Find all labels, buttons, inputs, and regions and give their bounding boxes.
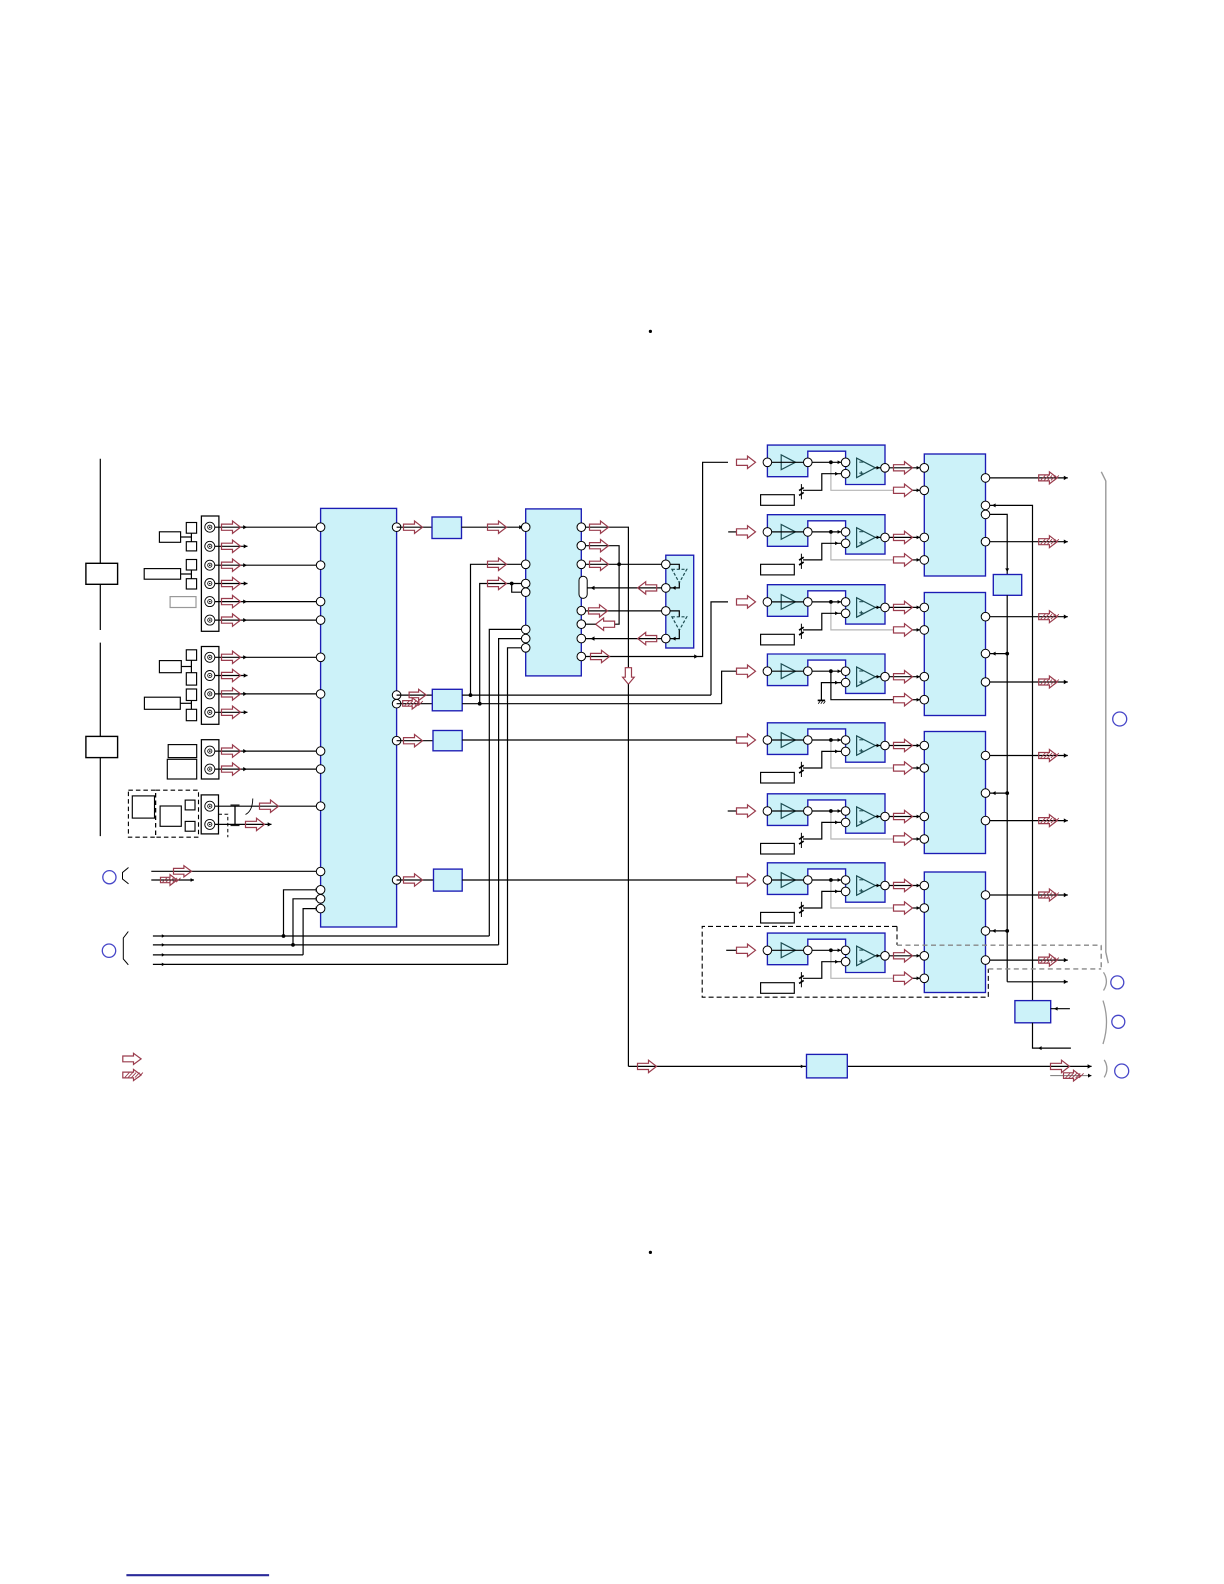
U2 pin L3 xyxy=(521,579,530,588)
U3 pin 2 xyxy=(662,584,671,593)
pin row7 out xyxy=(881,881,890,890)
wire row3 to power amp xyxy=(889,606,924,608)
input arrow row4 xyxy=(737,665,756,677)
bracket pre-out xyxy=(1103,1001,1107,1044)
label box row3 xyxy=(761,634,795,645)
label box CN3-A xyxy=(168,745,197,758)
wire PA1 aux1 to box B6 xyxy=(990,505,1033,1000)
connector block CN2 xyxy=(201,647,219,725)
wire jack CN4-2 stub xyxy=(215,823,272,825)
box B5 xyxy=(993,575,1021,596)
pin row8 in xyxy=(763,946,772,955)
box B2 (REC selector) xyxy=(432,689,462,711)
U2 pin R6 xyxy=(577,634,586,643)
feedback wire row3 (gray) xyxy=(831,602,894,630)
signal arrow to U2 L2 xyxy=(488,558,507,570)
pin row1 plus xyxy=(841,469,850,478)
wire B2a to U2 pin xyxy=(471,564,522,695)
pin row5 out xyxy=(881,741,890,750)
selector contact square CN1-3 xyxy=(186,560,196,571)
selector contact square CN1-1 xyxy=(186,523,196,534)
pin row6 in xyxy=(763,807,772,816)
PA3 pin fb1 xyxy=(920,764,929,773)
wire op-amp out row5 xyxy=(875,745,884,747)
wire row5 plus input xyxy=(803,751,841,768)
buffer amp row8 xyxy=(781,943,795,958)
wire row7 to power amp xyxy=(889,885,924,887)
input jack CN1-6 xyxy=(205,615,215,625)
feedback wire row2 (gray) xyxy=(831,532,894,560)
pin row3 mid xyxy=(804,598,813,607)
PA output pin 1 xyxy=(981,474,990,483)
wire bus4 to U2 pin xyxy=(508,648,522,965)
signal arrow CN1-1 xyxy=(222,521,241,533)
wire op-amp out row4 xyxy=(875,676,884,678)
wire row8 main xyxy=(772,949,846,951)
wire feedback row2 to power amp xyxy=(913,559,925,561)
wire B6 bottom out xyxy=(1033,1023,1071,1048)
PA3 pin aux xyxy=(981,789,990,798)
dashed corridor right (gray) xyxy=(1100,945,1102,969)
cable arc CN4 xyxy=(246,799,253,815)
feedback wire row6 (gray) xyxy=(831,811,894,839)
wire headphone vertical lower xyxy=(627,684,629,1066)
PA output pin 2 xyxy=(981,537,990,546)
pin row6 plus xyxy=(841,818,850,827)
speaker output wire 7 xyxy=(990,894,1068,896)
speaker output arrow 8 (hatched) xyxy=(1039,954,1058,966)
PA output pin 3 xyxy=(981,612,990,621)
input jack CN2-4 xyxy=(205,707,215,717)
wire row4 plus input xyxy=(821,683,841,701)
pin row3 in xyxy=(763,598,772,607)
wire B5 down xyxy=(1006,595,1008,982)
wire U1 to box B2 (b) xyxy=(397,703,433,705)
feedback arrow row1 xyxy=(894,484,913,496)
wire bus1 to U2 pin xyxy=(489,629,521,936)
DAC op-amp triangle 2 xyxy=(672,617,687,630)
wire bus B2a up to row3 xyxy=(711,602,728,695)
pin row8 minus xyxy=(841,946,850,955)
terminal circle surround-back xyxy=(1111,976,1124,989)
input jack CN1-1 xyxy=(205,522,215,532)
wire row1 plus input xyxy=(803,474,841,491)
wire B4 to row7 xyxy=(462,879,736,881)
input jack CN1-5 xyxy=(205,597,215,607)
feedback arrow row3 xyxy=(894,624,913,636)
input arrow row1 xyxy=(737,456,756,468)
stub wire jack CN2-2 xyxy=(215,675,248,677)
pin row7 plus xyxy=(841,887,850,896)
input jack CN1-2 xyxy=(205,541,215,551)
label box CN2-A xyxy=(159,661,181,673)
bus wire 3 xyxy=(153,954,303,956)
signal arrow B1-U2 xyxy=(488,521,507,533)
dashed corridor top (gray) xyxy=(897,944,1101,946)
wire op-amp out row1 xyxy=(875,467,884,469)
U2 pin R4 xyxy=(577,606,586,615)
selector contact square CN1-4 xyxy=(186,579,196,589)
input jack CN3-1 xyxy=(205,746,215,756)
bias trim symbol row1 xyxy=(800,484,802,499)
selector contact square CN2-3 xyxy=(186,689,196,701)
signal arrow U1-B2a xyxy=(409,689,426,700)
wire row1 main xyxy=(772,461,846,463)
dashed enclosure row8 (optional amp) xyxy=(702,926,988,997)
speaker bracket xyxy=(1101,472,1108,963)
selector contact square CN1-2 xyxy=(186,542,196,551)
pin row4 in xyxy=(763,667,772,676)
preamp block row6 xyxy=(767,794,885,833)
wire jack CN2-1 to U1 xyxy=(215,656,322,658)
signal arrow U2 R3 xyxy=(590,558,609,570)
stub wire jack CN2-4 xyxy=(215,711,248,713)
wire jack CN3-2 to U1 xyxy=(215,768,322,770)
legend arrow signal xyxy=(123,1053,141,1064)
PA4 pin fb1 xyxy=(920,904,929,913)
U2 pin R5 xyxy=(577,620,586,629)
pin row7 minus xyxy=(841,876,850,885)
label box CN1-A xyxy=(159,532,180,543)
preamp block row1 xyxy=(767,445,885,484)
pin row5 plus xyxy=(841,747,850,756)
PA output pin 7 xyxy=(981,891,990,900)
input arrow row5 xyxy=(737,734,756,746)
wire row5 to power amp xyxy=(889,745,924,747)
wire feedback row6 to power amp xyxy=(913,838,925,840)
feedback arrow row5 xyxy=(894,762,913,774)
U2 pin R7 xyxy=(577,652,586,661)
dashed enclosure DOCK left xyxy=(128,790,155,837)
buffer amp row5 xyxy=(781,733,795,748)
pin row7 mid xyxy=(804,876,813,885)
bus wire 2 xyxy=(153,944,499,946)
wire row6 to power amp xyxy=(889,816,924,818)
pin row8 mid xyxy=(804,946,813,955)
signal arrow CN2-3 xyxy=(222,688,241,700)
signal arrow CN1-3 xyxy=(222,559,241,571)
bus wire 4 xyxy=(153,963,508,965)
signal arrow CN3-1 xyxy=(222,745,241,757)
feedback arrow row2 xyxy=(894,554,913,566)
speaker output arrow 6 (hatched) xyxy=(1039,815,1058,827)
input arrow row2 xyxy=(737,526,756,538)
tiny dot lower xyxy=(649,1251,652,1254)
input arrow row3 xyxy=(737,596,756,608)
PA3 pin fb2 xyxy=(920,835,929,844)
op-amp row2 xyxy=(857,528,876,548)
level control slider S2 xyxy=(99,643,101,837)
box B3 xyxy=(433,731,462,751)
wire bus2 to U2 pin xyxy=(499,639,522,945)
pin row6 out xyxy=(881,812,890,821)
input jack CN1-3 xyxy=(205,560,215,570)
wire U1 to box B2 (a) xyxy=(397,694,433,696)
pin row5 minus xyxy=(841,736,850,745)
op-amp row4 xyxy=(857,667,876,687)
U1 pin L3 xyxy=(316,597,325,606)
DSP IC U2 xyxy=(526,509,582,676)
signal arrow CN2-2 xyxy=(222,669,241,681)
PA output pin 5 xyxy=(981,751,990,760)
wire U2 R7 to row1 xyxy=(586,462,728,656)
U1 pin L13 xyxy=(316,904,325,913)
wire U2 R3 to DAC xyxy=(586,563,666,565)
input jack CN2-1 xyxy=(205,652,215,662)
signal arrow U1-B1 xyxy=(404,521,423,533)
wire B5 tail out xyxy=(1007,981,1068,983)
power amp IC PA4 xyxy=(924,872,985,993)
pin row4 plus xyxy=(841,678,850,687)
wire triangle 1 to U3 pin2 xyxy=(670,583,679,588)
speaker output arrow 7 (hatched) xyxy=(1039,889,1058,901)
signal arrow headphone left xyxy=(638,1060,657,1072)
dashed notch around CN4 xyxy=(219,814,228,837)
PA4 pin in1 xyxy=(920,881,929,890)
bracket headphone xyxy=(1104,1060,1107,1078)
wire jack CN3-1 to U1 xyxy=(215,750,322,752)
wire B5 to PA4 aux xyxy=(990,930,1007,932)
input jack CN3-2 xyxy=(205,764,215,774)
wire jack CN1-3 to U1 xyxy=(215,564,322,566)
wire feedback row8 to power amp xyxy=(913,977,925,979)
wire U2 R1 headphone feed xyxy=(586,527,629,668)
input jack CN4-2 xyxy=(205,819,215,829)
buffer amp row4 xyxy=(781,664,795,679)
signal arrow U1-B4 xyxy=(404,874,423,886)
PA4 pin aux xyxy=(981,927,990,936)
pin row7 in xyxy=(763,876,772,885)
feedback wire row4 xyxy=(831,671,894,700)
PA1 pin aux2 xyxy=(981,510,990,519)
wire feedback row4 to power amp xyxy=(913,699,925,701)
PA1 pin in2 xyxy=(920,533,929,542)
wire row3 plus input xyxy=(803,613,841,630)
bias trim symbol row7 xyxy=(800,902,802,917)
op-amp row1 xyxy=(857,458,876,478)
wire U2 R4 to DAC xyxy=(586,610,666,612)
label box CN3-B xyxy=(167,759,196,779)
wire row7 plus input xyxy=(803,891,841,908)
wire row8 to power amp xyxy=(889,955,924,957)
signal arrow to U2 L3 xyxy=(488,577,507,589)
box B7 (headphone amp) xyxy=(801,1065,804,1069)
wire U2 R2 xyxy=(586,546,620,625)
bias trim symbol row8 xyxy=(800,972,802,987)
pin row4 minus xyxy=(841,667,850,676)
U2 pin R2 xyxy=(577,541,586,550)
PA3 pin in1 xyxy=(920,741,929,750)
pin row2 minus xyxy=(841,528,850,537)
U1 pin R3 xyxy=(392,699,401,708)
pin row1 in xyxy=(763,458,772,467)
bus wire B2a xyxy=(462,694,711,696)
PA2 pin in2 xyxy=(920,672,929,681)
pin row4 mid xyxy=(804,667,813,676)
headphone wire xyxy=(628,1065,1091,1067)
signal arrow CN2-1 xyxy=(222,651,241,663)
feedback arrow row4 xyxy=(894,694,913,706)
preamp block row4 xyxy=(767,654,885,693)
signal arrow PHONES xyxy=(174,866,192,877)
PA1 pin in1 xyxy=(920,464,929,473)
signal arrow U2 R4 xyxy=(589,605,608,617)
PA3 pin in2 xyxy=(920,812,929,821)
signal arrow CN3-2 xyxy=(222,763,241,775)
bus wire 1 xyxy=(153,935,489,937)
pin row3 plus xyxy=(841,609,850,618)
U2 pin L4 xyxy=(521,588,530,597)
speaker output wire 4 xyxy=(990,681,1068,683)
connector block CN4 xyxy=(201,795,218,834)
wire U1 to box B3 xyxy=(397,740,433,742)
wire row2 to power amp xyxy=(889,536,924,538)
signal arrow CN1-4 xyxy=(222,577,241,589)
wire triangle 2 to U3 pin4 xyxy=(670,630,679,638)
U1 pin L9 xyxy=(316,802,325,811)
wire op-amp out row7 xyxy=(875,885,884,887)
stub wire row2 input xyxy=(728,531,736,533)
power amp IC PA2 xyxy=(924,593,985,716)
stub wire jack CN1-4 xyxy=(215,583,248,585)
wire U1 to box B1 xyxy=(397,526,432,528)
pin row1 mid xyxy=(804,458,813,467)
wire op-amp out row8 xyxy=(875,955,884,957)
op-amp row7 xyxy=(857,876,876,896)
return arrow DAC1 xyxy=(638,582,657,594)
feedback wire row5 (gray) xyxy=(831,740,894,768)
stub wire row6 input xyxy=(728,810,737,812)
power amp IC PA1 xyxy=(924,454,985,576)
U1 pin L1 xyxy=(316,523,325,532)
wire B1 to U2 xyxy=(462,526,526,528)
terminal circle headphone xyxy=(1115,1064,1129,1078)
wire row4 to power amp xyxy=(889,676,924,678)
label box row6 xyxy=(761,843,795,854)
DAC block U3 xyxy=(666,555,694,648)
pin row3 out xyxy=(881,603,890,612)
input jack CN2-2 xyxy=(205,671,215,681)
wire jack CN1-1 to U1 xyxy=(215,526,322,528)
feedback arrow row6 xyxy=(894,833,913,845)
signal arrow CN4-1 xyxy=(260,800,279,812)
U1 pin L7 xyxy=(316,747,325,756)
wire CN2-B to contacts xyxy=(180,702,191,704)
speaker output wire 3 xyxy=(990,616,1068,618)
wire B2b to U2 pins xyxy=(480,584,522,704)
pin row8 plus xyxy=(841,957,850,966)
U2 pin L6 xyxy=(521,634,530,643)
preamp block row2 xyxy=(767,515,885,554)
PA2 pin in1 xyxy=(920,603,929,612)
speaker output arrow 3 (hatched) xyxy=(1039,611,1058,623)
bias trim symbol row5 xyxy=(800,762,802,777)
selector contact square CN2-1 xyxy=(186,650,196,661)
pin row2 out xyxy=(881,533,890,542)
input arrow row8 xyxy=(737,944,756,956)
power amp IC PA3 xyxy=(924,732,985,854)
PA2 pin aux xyxy=(981,649,990,658)
U1 pin L11 xyxy=(316,886,325,895)
pin row5 mid xyxy=(804,736,813,745)
label box row2 xyxy=(761,564,795,575)
wire jack CN1-6 to U1 xyxy=(215,619,322,621)
signal arrow CN2-4 xyxy=(222,706,241,718)
wire PHONES to U1 xyxy=(151,870,321,872)
feedback wire row8 (gray) xyxy=(831,950,894,978)
box B6 xyxy=(1015,1001,1051,1023)
module box DOCK-B xyxy=(160,806,181,826)
signal arrow PHONES return (hatched) xyxy=(161,875,178,886)
speaker output wire 2 xyxy=(990,541,1068,543)
output arrow row8 xyxy=(894,950,913,962)
wire CN2-A to contacts xyxy=(181,666,191,668)
PA output pin 6 xyxy=(981,816,990,825)
wire row7 main xyxy=(772,879,846,881)
jumper link CN4 xyxy=(234,806,236,824)
module box DOCK-A xyxy=(132,796,154,818)
wire bus1 to U1 pin xyxy=(284,890,318,936)
wire bus2 to U1 pin xyxy=(293,899,318,945)
wire row4 main xyxy=(772,670,846,672)
U3 pin 4 xyxy=(662,634,671,643)
wire jack CN1-5 to U1 xyxy=(215,601,322,603)
wire feedback row1 to power amp xyxy=(913,489,925,491)
speaker output wire 5 xyxy=(990,755,1068,757)
speaker output wire 8 xyxy=(990,959,1068,961)
signal arrow headphone right xyxy=(1051,1060,1070,1072)
feedback arrow row8 xyxy=(894,972,913,984)
feedback wire row1 (gray) xyxy=(831,462,894,490)
U1 pin L4 xyxy=(316,616,325,625)
input jack CN2-3 xyxy=(205,689,215,699)
U1 pin L10 xyxy=(316,867,325,876)
wire row1 to power amp xyxy=(889,467,924,469)
U1 pin R5 xyxy=(392,876,401,885)
return arrow into U2 R5 xyxy=(596,618,615,630)
input jack CN4-1 xyxy=(205,801,215,811)
op-amp row6 xyxy=(857,807,876,827)
bus wire B2b xyxy=(462,703,721,705)
wire row6 main xyxy=(772,810,846,812)
pin row2 plus xyxy=(841,539,850,548)
wire row5 main xyxy=(772,739,846,741)
wire PA1 aux2 to box B5 xyxy=(990,514,1007,574)
level control slider S1 xyxy=(99,459,101,630)
U2 pin L1 xyxy=(521,523,530,532)
ground row4 xyxy=(818,699,825,701)
buffer amp row3 xyxy=(781,595,795,610)
signal arrow CN4-2 xyxy=(246,818,265,830)
wire into B6 from right xyxy=(1051,1008,1070,1010)
terminal circle CTRL xyxy=(102,944,115,957)
bias trim symbol row2 xyxy=(800,554,802,569)
mic wire (gray) xyxy=(1050,1075,1091,1077)
wire feedback row3 to power amp xyxy=(913,629,925,631)
wire row6 plus input xyxy=(803,822,841,839)
feedback wire row7 (gray) xyxy=(831,880,894,908)
U2 pin R3 xyxy=(577,560,586,569)
speaker output arrow 1 (hatched) xyxy=(1039,472,1058,484)
selector contact square DOCK-2 xyxy=(185,821,195,831)
PA1 pin fb2 xyxy=(920,556,929,565)
terminal circle speakers xyxy=(1113,712,1127,726)
wire U3 pin1 to triangle 1 xyxy=(670,564,679,569)
pin row5 in xyxy=(763,736,772,745)
wire B5 to PA2 aux xyxy=(990,653,1007,655)
dashed corridor bottom (gray) xyxy=(988,968,1101,970)
speaker output arrow 2 (hatched) xyxy=(1039,536,1058,548)
